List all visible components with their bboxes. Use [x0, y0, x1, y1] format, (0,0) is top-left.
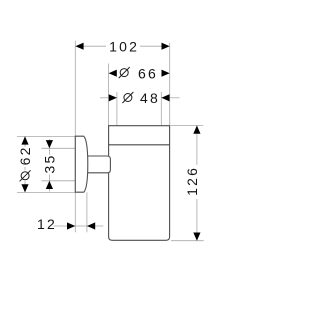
svg-text:102: 102	[109, 38, 139, 54]
svg-text:35: 35	[41, 154, 57, 174]
svg-text:48: 48	[140, 90, 160, 106]
svg-text:62: 62	[17, 145, 33, 165]
svg-text:126: 126	[184, 166, 200, 196]
svg-text:12: 12	[37, 216, 57, 232]
svg-text:66: 66	[138, 65, 158, 81]
